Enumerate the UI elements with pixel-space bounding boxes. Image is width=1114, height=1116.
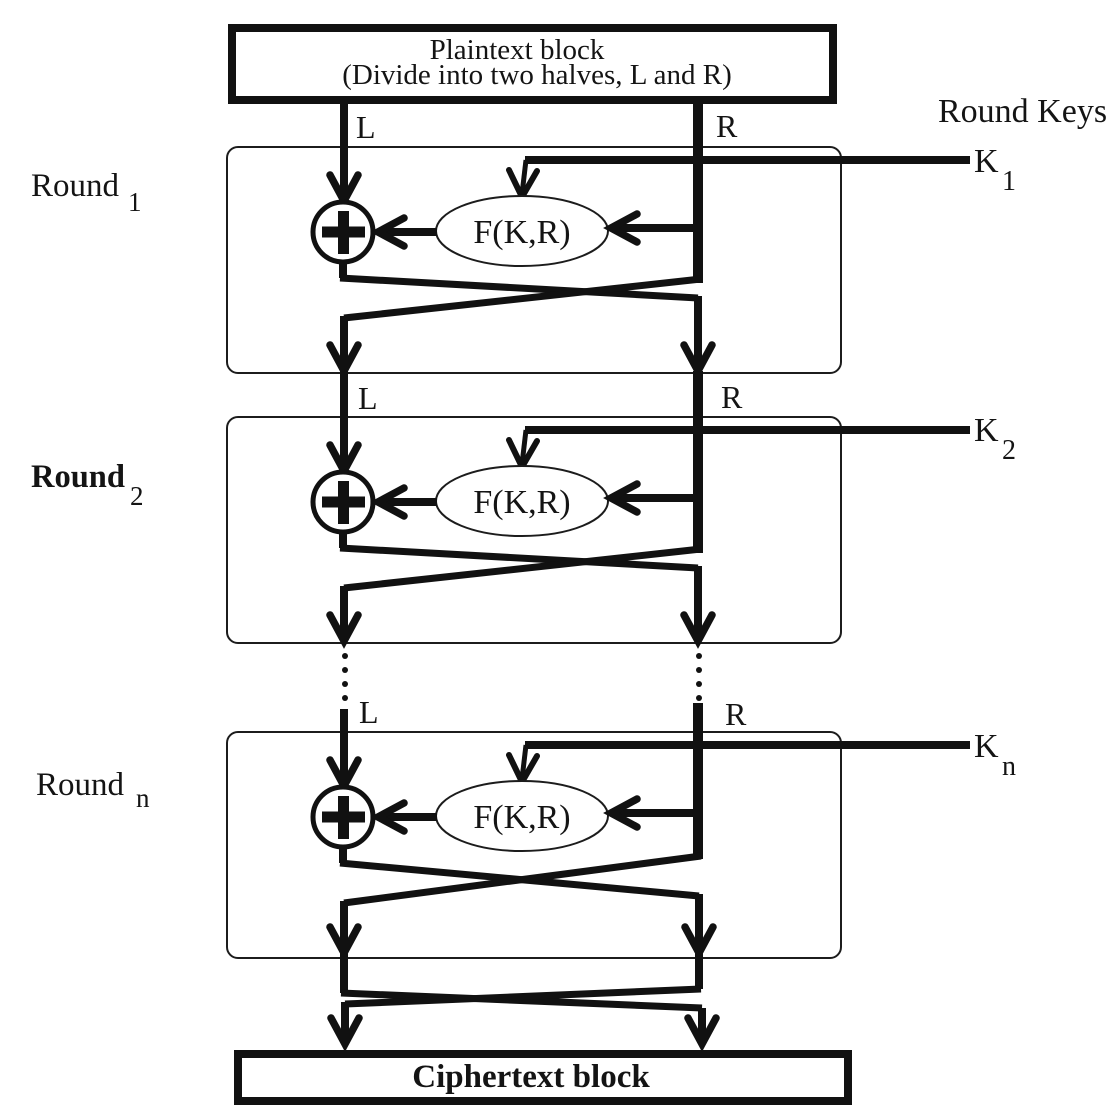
svg-text:K: K: [974, 728, 999, 765]
svg-text:R: R: [721, 379, 743, 415]
svg-text:n: n: [1002, 751, 1016, 782]
svg-text:L: L: [358, 380, 378, 416]
svg-text:Ciphertext block: Ciphertext block: [412, 1059, 650, 1095]
svg-text:K: K: [974, 143, 999, 180]
svg-text:R: R: [716, 108, 738, 144]
svg-text:Round: Round: [31, 459, 125, 495]
svg-text:L: L: [359, 694, 379, 730]
svg-text:L: L: [356, 109, 376, 145]
svg-text:n: n: [136, 783, 150, 813]
svg-text:R: R: [725, 696, 747, 732]
svg-text:(Divide into two halves, L and: (Divide into two halves, L and R): [342, 59, 732, 91]
svg-text:F(K,R): F(K,R): [473, 799, 570, 836]
svg-text:1: 1: [128, 187, 142, 217]
svg-text:1: 1: [1002, 166, 1016, 197]
svg-text:2: 2: [1002, 435, 1016, 466]
svg-text:Round: Round: [31, 168, 120, 204]
svg-text:Round Keys: Round Keys: [938, 93, 1107, 130]
svg-text:K: K: [974, 412, 999, 449]
svg-text:Round: Round: [36, 767, 125, 803]
svg-text:2: 2: [130, 481, 144, 511]
